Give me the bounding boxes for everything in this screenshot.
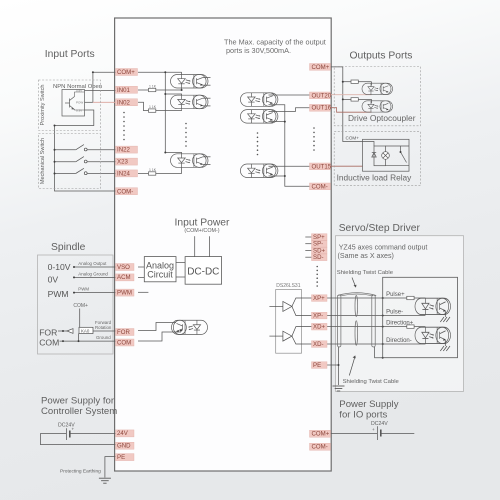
svg-text:X23: X23 xyxy=(117,159,128,166)
svg-text:Rotation: Rotation xyxy=(95,325,112,330)
svg-text:COM+: COM+ xyxy=(312,64,330,71)
svg-text:COM-: COM- xyxy=(312,183,328,190)
svg-text:0-10V: 0-10V xyxy=(48,262,71,272)
svg-text:VSO: VSO xyxy=(117,264,130,271)
svg-text:XP+: XP+ xyxy=(313,295,325,302)
svg-text:PE: PE xyxy=(117,454,125,461)
svg-text:Analog Output: Analog Output xyxy=(78,261,107,266)
svg-text:Drive Optocoupler: Drive Optocoupler xyxy=(348,113,416,123)
svg-text:1 1K: 1 1K xyxy=(149,105,157,109)
svg-text:Ground: Ground xyxy=(96,335,111,340)
svg-text:IN01: IN01 xyxy=(117,87,130,94)
svg-text:POW: POW xyxy=(76,101,83,105)
svg-text:PE: PE xyxy=(313,362,321,369)
svg-text:OUT20: OUT20 xyxy=(312,92,332,99)
svg-text:Input Ports: Input Ports xyxy=(45,49,95,60)
svg-text:COM-: COM- xyxy=(117,188,133,195)
svg-text:SD-: SD- xyxy=(313,254,324,261)
svg-text:(Same as X axes): (Same as X axes) xyxy=(338,252,394,260)
svg-text:COM+: COM+ xyxy=(73,303,88,309)
svg-text:0V: 0V xyxy=(48,274,59,284)
svg-text:GND: GND xyxy=(117,443,131,450)
svg-text:IN02: IN02 xyxy=(117,99,130,106)
svg-text:PWM: PWM xyxy=(48,289,69,299)
svg-text:24V: 24V xyxy=(117,430,129,437)
svg-text:YZ45 axes command output: YZ45 axes command output xyxy=(339,243,428,251)
svg-text:IN24: IN24 xyxy=(117,171,130,178)
svg-text:1 1K: 1 1K xyxy=(149,84,157,88)
svg-text:Pulse+: Pulse+ xyxy=(386,292,405,298)
svg-text:Protecting Earthing: Protecting Earthing xyxy=(60,469,101,475)
svg-text:IN22: IN22 xyxy=(117,147,130,154)
svg-text:+: + xyxy=(72,427,75,432)
svg-text:FOR: FOR xyxy=(39,327,57,337)
svg-text:Power Supply: Power Supply xyxy=(339,399,398,410)
svg-text:Outputs Ports: Outputs Ports xyxy=(350,51,413,62)
svg-text:Inductive load Relay: Inductive load Relay xyxy=(337,173,413,183)
svg-text:DC-DC: DC-DC xyxy=(187,267,219,278)
svg-text:Shielding Twist Cable: Shielding Twist Cable xyxy=(337,270,394,276)
svg-text:COM: COM xyxy=(39,338,59,348)
svg-text:1 1K: 1 1K xyxy=(149,168,157,172)
svg-text:0.8V: 0.8V xyxy=(76,89,82,93)
svg-text:COM+: COM+ xyxy=(312,431,330,438)
svg-text:COM+: COM+ xyxy=(346,136,360,141)
svg-text:COM+: COM+ xyxy=(117,69,135,76)
svg-text:Pulse-: Pulse- xyxy=(386,309,403,315)
svg-text:OUT15: OUT15 xyxy=(312,163,332,170)
svg-text:Direction-: Direction- xyxy=(386,338,412,344)
svg-text:PWM: PWM xyxy=(117,289,132,296)
svg-text:Proximity Switch: Proximity Switch xyxy=(40,84,46,125)
svg-text:0.3V: 0.3V xyxy=(76,109,82,113)
svg-text:ports is 30V,500mA.: ports is 30V,500mA. xyxy=(226,46,291,55)
svg-text:DS26LS31: DS26LS31 xyxy=(276,283,300,289)
svg-text:(COM+/COM-): (COM+/COM-) xyxy=(184,228,219,234)
svg-text:Circuit: Circuit xyxy=(147,270,173,280)
svg-text:Mechanical Switch: Mechanical Switch xyxy=(40,138,46,184)
svg-text:Shielding Twist Cable: Shielding Twist Cable xyxy=(343,379,400,385)
svg-text:XD+: XD+ xyxy=(313,324,325,331)
svg-text:PWM: PWM xyxy=(78,287,89,292)
svg-text:DC24V: DC24V xyxy=(371,421,388,427)
svg-text:ACM: ACM xyxy=(117,274,131,281)
svg-text:XD-: XD- xyxy=(313,341,324,348)
svg-text:+: + xyxy=(372,427,375,432)
svg-text:COM-: COM- xyxy=(312,444,328,451)
svg-text:KA0: KA0 xyxy=(81,328,90,333)
svg-text:Servo/Step Driver: Servo/Step Driver xyxy=(339,223,421,234)
svg-text:FOR: FOR xyxy=(117,329,130,336)
svg-text:Input Power: Input Power xyxy=(175,218,231,229)
svg-text:XP-: XP- xyxy=(313,313,323,320)
svg-text:Power Supply for: Power Supply for xyxy=(41,396,115,407)
svg-text:Controller System: Controller System xyxy=(41,406,117,417)
svg-text:OUT16: OUT16 xyxy=(312,105,332,112)
svg-text:for IO ports: for IO ports xyxy=(339,410,387,421)
svg-text:Analog Ground: Analog Ground xyxy=(78,271,108,276)
svg-text:Spindle: Spindle xyxy=(51,242,86,253)
svg-text:COM: COM xyxy=(117,339,131,346)
